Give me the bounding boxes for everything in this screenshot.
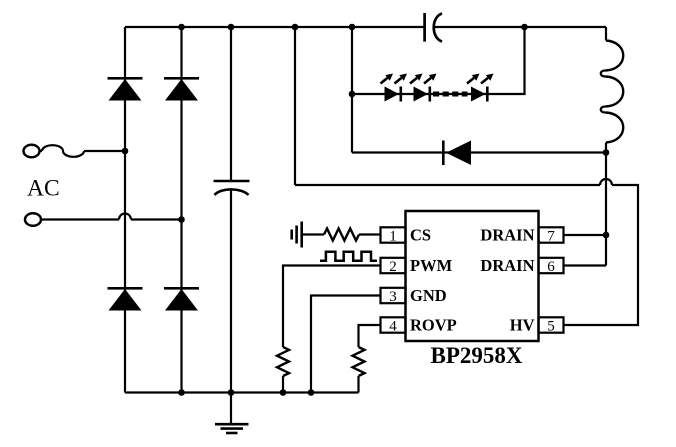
svg-text:5: 5	[547, 318, 555, 334]
svg-text:HV: HV	[510, 315, 535, 334]
svg-text:ROVP: ROVP	[410, 315, 457, 334]
svg-text:AC: AC	[27, 176, 60, 202]
svg-text:BP2958X: BP2958X	[431, 343, 523, 368]
svg-text:CS: CS	[410, 225, 431, 244]
svg-text:6: 6	[547, 259, 555, 275]
svg-text:PWM: PWM	[410, 256, 453, 275]
svg-text:1: 1	[389, 228, 397, 244]
svg-text:DRAIN: DRAIN	[480, 225, 534, 244]
svg-text:DRAIN: DRAIN	[480, 256, 534, 275]
svg-text:4: 4	[389, 318, 397, 334]
svg-text:2: 2	[389, 259, 397, 275]
svg-text:3: 3	[389, 289, 397, 305]
svg-text:GND: GND	[410, 286, 447, 305]
svg-text:7: 7	[547, 228, 555, 244]
